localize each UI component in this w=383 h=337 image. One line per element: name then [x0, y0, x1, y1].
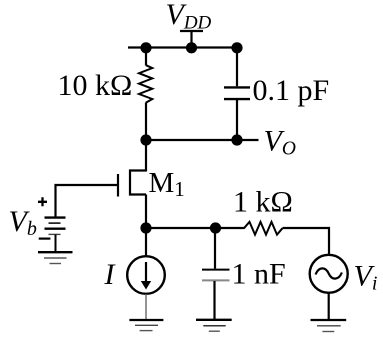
source Vi	[310, 255, 348, 293]
ground (battery)	[38, 251, 73, 253]
wire (Vi to ground)	[328, 293, 330, 319]
wire (rail to resistor)	[145, 48, 147, 66]
resistor 10 kOhm	[139, 65, 152, 102]
wire (node to capacitor C2)	[214, 228, 216, 269]
node VO wire	[146, 139, 259, 141]
minus sign	[39, 238, 51, 240]
battery Vb	[45, 216, 66, 218]
wire (resistor to Vi source)	[283, 228, 330, 255]
svg-text:0.1 pF: 0.1 pF	[253, 74, 330, 107]
transistor M1	[118, 171, 146, 197]
wire (battery to ground)	[55, 234, 57, 252]
junction (rail / R)	[140, 42, 151, 53]
wire (resistor to VO node)	[145, 102, 147, 140]
wire (node to current source)	[145, 228, 147, 256]
ground (Vi)	[311, 319, 347, 321]
ground (current source)	[129, 319, 163, 321]
capacitor C1 (0.1 pF)	[224, 87, 250, 99]
svg-text:1 nF: 1 nF	[232, 258, 286, 291]
junction (VO / drain)	[140, 134, 151, 145]
resistor 1 kOhm	[244, 222, 283, 235]
junction (rail / VDD)	[186, 42, 197, 53]
plus sign	[38, 197, 47, 206]
junction (VO / C1)	[231, 134, 242, 145]
wire (current source to ground)	[145, 294, 147, 319]
wire (top rail)	[128, 46, 237, 48]
wire (source of M1 to node)	[145, 195, 147, 229]
wire (capacitor C2 to ground)	[213, 281, 215, 319]
capacitor C2 (1 nF)	[202, 269, 230, 271]
node (source) wire	[146, 227, 245, 229]
wire (VO to drain of M1)	[145, 140, 147, 172]
junction (source / I)	[140, 222, 151, 233]
junction (rail / C1)	[231, 42, 242, 53]
VDD supply tick	[180, 31, 203, 48]
svg-text:1 kΩ: 1 kΩ	[233, 186, 293, 219]
wire (rail to capacitor C1)	[236, 48, 238, 87]
ground (capacitor C2)	[196, 319, 232, 321]
current source I	[127, 256, 165, 294]
wire (capacitor to VO node)	[236, 100, 238, 140]
svg-text:10 kΩ: 10 kΩ	[58, 69, 133, 102]
junction (source / C2)	[210, 222, 221, 233]
wire (gate of M1 to battery)	[56, 185, 119, 217]
